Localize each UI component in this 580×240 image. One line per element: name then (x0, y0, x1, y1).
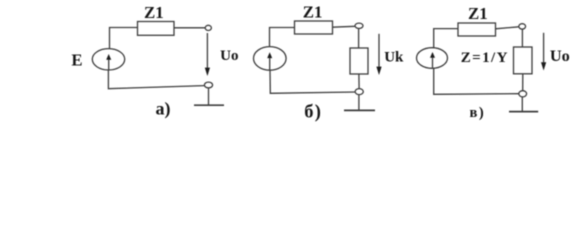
node: top junction circle (circuit b) (355, 23, 363, 28)
resistor Z1 (circuit v) (458, 23, 496, 36)
wire node to load (circuit b) (358, 29, 360, 49)
svg-text:Uk: Uk (384, 50, 404, 66)
arrow Uo (circuit v) (541, 33, 546, 71)
wire Z1 to top node (circuit v) (496, 27, 519, 29)
wire load to bottom node (circuit b) (358, 74, 360, 89)
wire bottom node to ground (circuit v) (521, 97, 523, 112)
svg-text:Uo: Uo (550, 46, 570, 65)
svg-text:Z1: Z1 (144, 3, 164, 22)
resistor Z1 (circuit b) (295, 21, 333, 34)
voltage source E (circle with up arrow) (92, 49, 124, 70)
svg-text:Z1: Z1 (468, 4, 488, 23)
svg-text:Z1: Z1 (303, 3, 323, 22)
wire source top to rail (circuit b) (270, 28, 295, 47)
current source (circle with up arrow, circuit b) (253, 47, 286, 71)
node: open terminal bottom (circuit a) (204, 82, 212, 88)
svg-text:а): а) (156, 99, 171, 120)
node: bottom junction circle (circuit v) (519, 91, 527, 97)
load impedance box Z=1/Y (circuit v) (514, 47, 533, 74)
resistor Z1 (circuit a) (138, 22, 175, 36)
ground (circuit b) (344, 109, 375, 111)
svg-text:E: E (71, 51, 82, 70)
wire source bottom to bottom rail (108, 70, 204, 89)
svg-text:Z=1/Y: Z=1/Y (461, 50, 509, 66)
node: top junction circle (circuit v) (519, 24, 526, 29)
wire source top to rail (circuit v) (434, 29, 458, 48)
wire node to load (circuit v) (521, 29, 523, 47)
wire load to bottom node (circuit v) (522, 74, 524, 91)
arrow Uo (circuit a) (205, 33, 210, 76)
svg-text:в): в) (469, 105, 485, 121)
wire Z1 to top node (circuit b) (333, 25, 356, 28)
node: open terminal top (circuit a) (205, 25, 211, 30)
ground (circuit v) (509, 111, 538, 113)
svg-text:Uo: Uo (220, 48, 238, 64)
arrow Uk (circuit b) (376, 34, 381, 75)
current source (circle with up arrow, circuit v) (417, 48, 448, 69)
node: bottom junction circle (circuit b) (355, 89, 363, 95)
load impedance box (circuit b) (350, 48, 368, 74)
wire source bottom to bottom rail (circuit v) (434, 68, 519, 94)
ground (circuit a) (194, 104, 224, 106)
wire source top to rail (110, 28, 138, 49)
wire terminal to ground (208, 88, 210, 105)
wire Z1 to output node (174, 27, 205, 29)
wire source bottom to bottom rail (circuit b) (270, 70, 355, 93)
svg-text:б): б) (304, 102, 322, 122)
wire bottom node to ground (circuit b) (358, 95, 360, 111)
